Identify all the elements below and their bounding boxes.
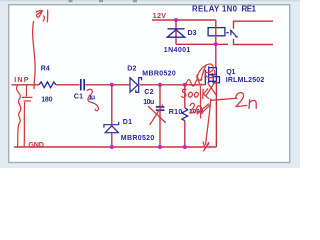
- annotation squiggle resistor left: [16, 86, 20, 147]
- wire D1 to ground: [111, 133, 113, 147]
- annotation X over pin square: [206, 83, 216, 96]
- pin marker square on source: [213, 77, 219, 83]
- wire Q1 source to ground: [215, 81, 217, 147]
- svg-text:D2: D2: [127, 66, 136, 73]
- svg-text:R10: R10: [169, 109, 183, 116]
- annotation 500: [182, 89, 199, 97]
- svg-text:IRLML2502: IRLML2502: [226, 77, 265, 84]
- resistor R4: [39, 82, 56, 88]
- wire coil bottom to D3 anode: [176, 43, 228, 45]
- annotation X over C2: [149, 105, 166, 125]
- annotation scribble loops over Q1: [197, 64, 215, 80]
- label MBR0520 of D2: [142, 71, 176, 78]
- resistor R10: [182, 108, 188, 121]
- node ground C2: [158, 145, 162, 149]
- label IRLML2502: [226, 77, 265, 84]
- annotation curve down to INP: [33, 22, 36, 89]
- top edge tick: [69, 0, 138, 2]
- svg-text:1N4001: 1N4001: [164, 47, 191, 54]
- svg-text:MBR0520: MBR0520: [121, 135, 155, 142]
- annotation tall stroke: [199, 87, 201, 119]
- svg-text:12V: 12V: [153, 11, 167, 20]
- label R4: [41, 66, 50, 73]
- svg-text:Q1: Q1: [226, 69, 235, 76]
- label C1: [74, 93, 83, 100]
- wire D1 column: [111, 85, 113, 124]
- label C2: [144, 89, 153, 96]
- label D1: [123, 119, 132, 126]
- label GND: [28, 140, 44, 149]
- label 10u: [143, 99, 154, 106]
- label INP: [14, 75, 29, 84]
- node D1 top junction: [110, 83, 114, 87]
- wire C1 to D2: [85, 84, 129, 86]
- svg-text:GND: GND: [28, 140, 44, 149]
- transistor Q1 IRLML2502: [205, 66, 216, 85]
- schematic canvas frame: [9, 5, 290, 163]
- label MBR0520 of D1: [121, 135, 155, 142]
- label Q1: [226, 69, 235, 76]
- capacitor C1: [81, 79, 84, 90]
- top edge shade line: [0, 0, 300, 1]
- relay contact S1 wires: [234, 21, 274, 44]
- node drain junction: [214, 42, 218, 46]
- label D2: [127, 66, 136, 73]
- label RELAY 1N0 RE1: [192, 5, 257, 14]
- annotation hand capacitor left: [22, 86, 32, 146]
- wire D3 branch vertical: [175, 20, 177, 44]
- wire 12V rail: [152, 19, 216, 21]
- wire C2 bottom: [159, 111, 161, 147]
- annotation squiggle near C1: [87, 89, 98, 110]
- svg-text:D3: D3: [188, 30, 197, 37]
- svg-text:180: 180: [41, 96, 52, 103]
- label 100k: [189, 108, 204, 115]
- node ground R10: [183, 145, 187, 149]
- relay coil K1: [208, 28, 225, 36]
- svg-text:C1: C1: [74, 93, 83, 100]
- svg-text:10u: 10u: [143, 99, 154, 106]
- label R10: [169, 109, 183, 116]
- node C2 junction: [158, 83, 162, 87]
- label 12V: [153, 11, 167, 20]
- relay contact S1: [226, 30, 238, 37]
- wire INP to R4: [12, 84, 40, 86]
- annotation arrow to ground: [203, 99, 211, 151]
- diode D3 1N4001 flyback: [167, 29, 185, 37]
- wire R10 bottom: [184, 121, 186, 147]
- desktop background: [0, 0, 300, 168]
- annotation K: [203, 89, 209, 99]
- wire R4 to C1: [56, 84, 80, 86]
- transistor Q1 arrow: [210, 73, 214, 76]
- wire D2 to gate: [140, 84, 205, 86]
- svg-text:RELAY 1N0: RELAY 1N0: [192, 5, 238, 14]
- label D3: [188, 30, 197, 37]
- node R10 junction: [183, 83, 187, 87]
- wire R10 top: [184, 85, 186, 108]
- annotation 20 over 100k: [190, 103, 202, 113]
- node ground D1: [110, 145, 114, 149]
- capacitor C2: [156, 107, 165, 110]
- label 1u: [88, 94, 95, 101]
- svg-text:R4: R4: [41, 66, 50, 73]
- wire ground rail: [14, 146, 216, 148]
- annotation waves on wire: [186, 80, 202, 87]
- wire drain column through coil: [215, 20, 217, 68]
- svg-text:C2: C2: [144, 89, 153, 96]
- diode D1 MBR0520: [104, 122, 119, 133]
- label 180: [41, 96, 52, 103]
- svg-text:RE1: RE1: [242, 5, 257, 14]
- annotation dash and 2n: [211, 93, 256, 109]
- label 1N4001: [164, 47, 191, 54]
- wire C2 top: [159, 85, 161, 107]
- node 12V junction: [174, 18, 178, 22]
- annotation strikes over 100k: [197, 104, 210, 114]
- annotation check mark top-left: [36, 10, 47, 21]
- diode D2 MBR0520: [130, 78, 142, 93]
- svg-text:MBR0520: MBR0520: [142, 71, 176, 78]
- svg-text:D1: D1: [123, 119, 132, 126]
